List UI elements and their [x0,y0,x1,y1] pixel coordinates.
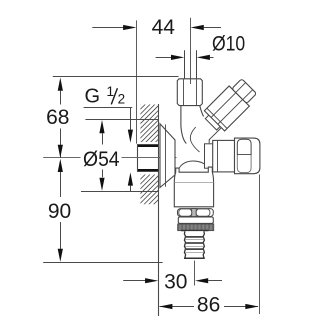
G 1/2 underline [84,107,133,109]
body left outline [181,106,186,144]
cap nut facet pill [237,139,251,155]
svg-text:30: 30 [164,270,187,293]
valve centre line right segment [122,157,177,159]
body internal curve [190,127,199,152]
svg-text:44: 44 [152,16,176,39]
45-degree outlet union nut [204,86,249,131]
dimension O54 top extension line [85,119,158,121]
wall hatching lower patch [50,140,247,260]
svg-text:68: 68 [46,106,69,129]
svg-text:Ø10: Ø10 [212,32,245,55]
svg-text:90: 90 [48,200,71,223]
dimension 30 [123,280,145,282]
riser pipe O10 [184,50,186,79]
escutcheon flange [160,124,175,188]
dimension O10 [156,57,172,59]
valve centre line left segment [43,157,80,159]
wall hatching upper patch [50,80,237,190]
dimension 44 [92,27,124,29]
body dome over check valve [179,161,208,168]
compression nut [177,79,202,106]
outlet tip piece [232,79,257,104]
svg-text:1: 1 [106,83,114,99]
knurled ring [178,224,214,231]
right outlet stub [205,144,215,168]
G1/2 threaded inlet nipple [137,144,158,172]
wall surface line [158,104,160,316]
45-degree outlet stub [201,76,259,134]
body 45-degree branch edge [209,123,226,143]
dimension 44 extension line (nipple end) [136,20,138,143]
ribbed ring [178,209,214,217]
serrated hose nipple [184,231,204,258]
svg-text:G: G [85,86,101,108]
svg-text:86: 86 [197,293,220,316]
nipple barb ridges [185,236,204,238]
svg-text:Ø54: Ø54 [83,148,120,171]
dimension 68 top extension line [53,76,179,78]
nipple bottom edge [184,257,205,259]
body right neck outline [200,106,204,117]
dimension 90 bottom reference line [43,262,163,264]
smooth ring [178,217,213,223]
dimension 86 [160,306,195,308]
G 1/2 leader line [130,108,132,131]
right outlet body [213,140,235,172]
dimension 44 extension line (pipe centre) [190,18,192,84]
knurl bottom lip [181,230,209,232]
dimension O54 [102,133,104,144]
dimension 68 [60,91,62,105]
valve body fill [179,106,224,169]
dimension 90 [60,172,62,197]
flange inner line [165,125,167,187]
nut facet lines [183,79,185,105]
dimension O54 bottom extension line [81,191,158,193]
right outlet cap nut [235,138,260,174]
svg-text:2: 2 [118,91,126,106]
dimension 30 extension line (hose centre) [194,261,196,286]
check valve housing [174,167,213,207]
dimension 86 right extension line [259,175,261,315]
